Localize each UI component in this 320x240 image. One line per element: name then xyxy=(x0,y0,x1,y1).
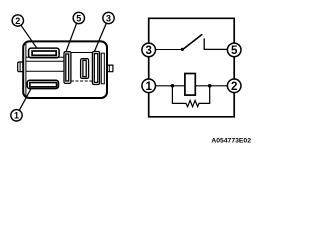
svg-text:3: 3 xyxy=(106,13,111,23)
svg-text:3: 3 xyxy=(145,45,151,57)
svg-text:1: 1 xyxy=(145,81,152,93)
svg-text:2: 2 xyxy=(15,16,20,26)
svg-text:2: 2 xyxy=(231,81,237,93)
svg-text:5: 5 xyxy=(231,45,238,57)
svg-text:A054773E02: A054773E02 xyxy=(211,138,251,145)
svg-text:1: 1 xyxy=(14,111,19,121)
svg-text:5: 5 xyxy=(76,13,81,23)
